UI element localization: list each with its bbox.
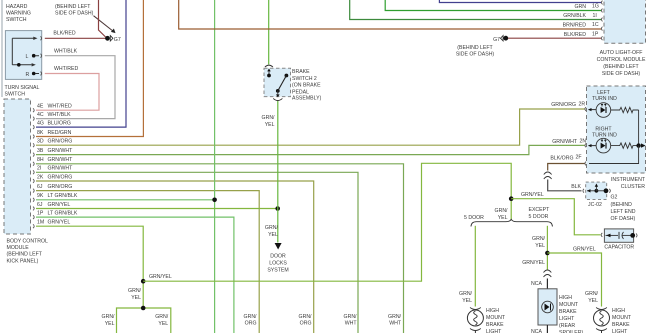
wire GRN/ORG BCM 3D to left turn ind 2R (36, 109, 585, 145)
svg-text:YEL: YEL (131, 295, 141, 301)
junction 9K (212, 198, 217, 203)
svg-text:YEL: YEL (158, 321, 168, 327)
svg-text:(BEHIND: (BEHIND (611, 202, 633, 208)
wire GRN/WHT BCM 2I to bottom edge (36, 172, 358, 333)
svg-text:BLU/ORG: BLU/ORG (48, 121, 71, 127)
svg-text:DOOR: DOOR (270, 254, 286, 260)
svg-text:SIDE OF DASH): SIDE OF DASH) (456, 52, 495, 58)
wire GRN/YEL brake switch to door locks (262, 101, 279, 243)
svg-text:1I: 1I (593, 13, 597, 19)
wire BLK/ORG to JC-02 (548, 164, 585, 171)
svg-text:WHT/RED: WHT/RED (48, 104, 72, 110)
pin 1P label (37, 211, 78, 217)
wire NCA to rear spoiler lamp (531, 279, 547, 289)
svg-text:4C: 4C (37, 112, 44, 118)
svg-text:PEDAL: PEDAL (292, 89, 309, 95)
svg-text:YEL: YEL (268, 232, 278, 238)
resistor left turn (611, 107, 639, 145)
svg-text:GRN/WHT: GRN/WHT (48, 157, 74, 163)
svg-text:BLK: BLK (571, 184, 581, 190)
wire BLK/RED from top edge to G7 (99, 0, 106, 37)
svg-text:GRN/BLK: GRN/BLK (563, 13, 586, 19)
junction 1M upper (141, 279, 146, 284)
svg-text:WHT/BLK: WHT/BLK (48, 112, 72, 118)
svg-text:SIDE OF DASH): SIDE OF DASH) (602, 71, 641, 77)
svg-text:(BEHIND LEFT: (BEHIND LEFT (7, 252, 43, 258)
svg-text:GRN/: GRN/ (532, 236, 546, 242)
arrow to door locks system (275, 243, 282, 250)
lamp right turn indicator (588, 138, 611, 153)
svg-text:BRAKE: BRAKE (612, 322, 630, 328)
label HIGH MOUNT BRAKE LIGHT right (612, 308, 632, 333)
lamp left turn indicator (588, 103, 611, 118)
label DOOR LOCKS SYSTEM (267, 254, 288, 274)
wire LT GRN/BLK vertical top to bottom (214, 0, 216, 333)
svg-text:KICK PANEL): KICK PANEL) (7, 258, 39, 264)
svg-text:GRN/: GRN/ (388, 314, 402, 320)
svg-text:8K: 8K (37, 130, 44, 136)
label BODY CONTROL MODULE (BEHIND LEFT KICK PANEL) (7, 239, 49, 265)
svg-text:GRN/ORG: GRN/ORG (48, 139, 73, 145)
wire WHT/BLK from L contact to BCM 4C (36, 49, 115, 119)
wire GRN/YEL BCM 6J to brake switch line (36, 208, 278, 210)
brace alternatives (471, 219, 552, 226)
svg-text:GRN/YEL: GRN/YEL (522, 260, 545, 266)
module pin labels (563, 4, 599, 38)
pin 4C label (37, 112, 71, 118)
svg-text:1P: 1P (37, 211, 44, 217)
wire BLK/RED from hazard switch to G7 (45, 31, 106, 39)
svg-text:SIDE OF DASH): SIDE OF DASH) (55, 11, 94, 17)
svg-text:5 DOOR: 5 DOOR (529, 214, 549, 220)
svg-text:5 DOOR: 5 DOOR (464, 215, 484, 221)
auto light-off control module box (604, 0, 646, 43)
wire LT GRN/BLK BCM 1P to bottom edge (36, 217, 234, 333)
svg-text:MOUNT: MOUNT (486, 315, 506, 321)
ground G7 right (493, 36, 508, 44)
svg-text:ORG: ORG (245, 321, 257, 327)
svg-text:HIGH: HIGH (486, 308, 499, 314)
svg-text:SWITCH 2: SWITCH 2 (292, 76, 317, 82)
svg-text:WHT/RED: WHT/RED (54, 66, 78, 72)
svg-text:(BEHIND LEFT: (BEHIND LEFT (55, 4, 91, 10)
rear spoiler high mount brake light box (538, 289, 557, 325)
svg-text:BODY CONTROL: BODY CONTROL (7, 239, 49, 245)
label INSTRUMENT CLUSTER (611, 177, 646, 190)
svg-text:WHT/BLK: WHT/BLK (54, 49, 78, 55)
svg-text:RED/GRN: RED/GRN (48, 130, 72, 136)
junction 6J (275, 206, 280, 211)
pin 6J label (37, 184, 72, 190)
wire BLK/ORG inside cluster (589, 146, 639, 164)
pin 9K label (37, 193, 78, 199)
svg-text:YEL: YEL (462, 298, 472, 304)
svg-text:LT GRN/BLK: LT GRN/BLK (48, 211, 78, 217)
svg-text:BLK/RED: BLK/RED (564, 32, 586, 38)
lamp right high mount brake light (594, 308, 610, 333)
cluster pin connectors (585, 107, 586, 165)
module connectors (601, 1, 602, 41)
pin 2I label (37, 166, 73, 172)
pin 3B label (37, 148, 73, 154)
svg-text:4E: 4E (37, 104, 44, 110)
wire BLU/ORG stub to module top pin (439, 0, 601, 3)
svg-text:INSTRUMENT: INSTRUMENT (611, 177, 646, 183)
svg-text:(BEHIND LEFT: (BEHIND LEFT (457, 45, 493, 51)
svg-text:3D: 3D (37, 139, 44, 145)
svg-text:BLK/RED: BLK/RED (53, 31, 75, 37)
wire GRN/YEL BCM 1M down-left network (36, 226, 171, 333)
instrument cluster turn indicator box (587, 86, 646, 173)
wire GRN/BLK to module 1I (350, 0, 601, 20)
svg-text:YEL: YEL (588, 298, 598, 304)
svg-text:G2: G2 (611, 195, 618, 201)
ground G7 left (105, 36, 121, 43)
svg-text:LIGHT: LIGHT (559, 316, 575, 322)
wire NCA below spoiler lamp (531, 325, 547, 333)
svg-text:6J: 6J (37, 202, 43, 208)
svg-text:1G: 1G (592, 4, 599, 10)
svg-text:GRN/YEL: GRN/YEL (521, 192, 544, 198)
svg-text:LIGHT: LIGHT (486, 329, 502, 333)
svg-text:CONTROL MODULE: CONTROL MODULE (597, 57, 646, 63)
svg-text:YEL: YEL (535, 243, 545, 249)
svg-text:2F: 2F (576, 155, 582, 161)
svg-text:GRN/: GRN/ (495, 208, 509, 214)
svg-text:3B: 3B (37, 148, 44, 154)
page edge line (1, 0, 3, 97)
turn signal / hazard switch box (5, 31, 41, 80)
svg-text:GRN/WHT: GRN/WHT (552, 139, 578, 145)
svg-text:9K: 9K (37, 193, 44, 199)
svg-text:R: R (26, 72, 30, 78)
label BRAKE SWITCH 2 (ON BRAKE PEDAL ASSEMBLY) (292, 69, 322, 102)
svg-text:GRN/ORG: GRN/ORG (551, 102, 576, 108)
label RIGHT TURN IND (592, 126, 617, 138)
junction except-5-door (545, 251, 550, 256)
svg-text:NCA: NCA (531, 329, 542, 333)
body control module box (4, 99, 31, 234)
svg-text:GRN/: GRN/ (299, 314, 313, 320)
inline connector on BLK/ORG (544, 172, 552, 179)
svg-text:(REAR: (REAR (559, 323, 575, 329)
brake switch 2 box (264, 65, 291, 100)
svg-text:HIGH: HIGH (559, 295, 572, 301)
svg-text:1C: 1C (592, 22, 599, 28)
svg-text:YEL: YEL (105, 321, 115, 327)
svg-text:2R: 2R (579, 102, 586, 108)
svg-text:(BEHIND LEFT: (BEHIND LEFT (603, 64, 639, 70)
svg-text:G7: G7 (114, 37, 121, 43)
svg-text:GRN/ORG: GRN/ORG (48, 184, 73, 190)
label GRN/WHT 2N (552, 139, 586, 146)
svg-text:JC-02: JC-02 (588, 202, 602, 208)
svg-text:GRN/YEL: GRN/YEL (48, 202, 71, 208)
svg-text:CAPACITOR: CAPACITOR (604, 245, 634, 251)
svg-text:WHT: WHT (345, 321, 358, 327)
pin 2K label (37, 174, 72, 180)
svg-text:GRN/YEL: GRN/YEL (149, 274, 172, 280)
svg-text:2I: 2I (37, 166, 41, 172)
svg-text:BLK/ORG: BLK/ORG (550, 156, 573, 162)
label HIGH MOUNT BRAKE LIGHT (REAR SPOILER) (559, 295, 583, 333)
svg-text:GRN: GRN (574, 4, 586, 10)
junction 1M lower (141, 306, 146, 311)
label HIGH MOUNT BRAKE LIGHT left (486, 308, 506, 333)
wire GRN/YEL except-5-door branch (522, 226, 547, 270)
svg-text:OF DASH): OF DASH) (611, 216, 636, 222)
label GRN/ORG 2R (551, 102, 585, 109)
pin 4G label (37, 121, 71, 127)
pin 8K label (37, 130, 72, 136)
svg-text:BRN/RED: BRN/RED (563, 22, 587, 28)
svg-text:LT GRN/BLK: LT GRN/BLK (48, 193, 78, 199)
svg-text:GRN/: GRN/ (265, 225, 279, 231)
svg-text:GRN/: GRN/ (459, 291, 473, 297)
label AUTO LIGHT-OFF CONTROL MODULE (597, 50, 646, 77)
svg-text:2K: 2K (37, 174, 44, 180)
wire BLK to JC-02 (548, 180, 582, 191)
svg-text:CLUSTER: CLUSTER (621, 184, 645, 190)
svg-text:(ON BRAKE: (ON BRAKE (292, 83, 321, 89)
wire RED/GRN BCM 8K to top edge (36, 0, 143, 137)
svg-text:4G: 4G (37, 121, 44, 127)
svg-text:SWITCH: SWITCH (6, 17, 27, 23)
svg-text:HAZARD: HAZARD (6, 4, 28, 10)
svg-text:GRN/WHT: GRN/WHT (48, 148, 74, 154)
svg-text:SWITCH: SWITCH (5, 92, 26, 98)
wire GRN/YEL main run to right side (143, 163, 511, 281)
svg-text:LEFT: LEFT (597, 90, 611, 96)
label BLK/ORG 2F (550, 155, 581, 162)
svg-text:GRN/: GRN/ (155, 314, 169, 320)
svg-text:NCA: NCA (531, 281, 542, 287)
svg-text:ASSEMBLY): ASSEMBLY) (292, 96, 322, 102)
inline connector on NCA wire (544, 270, 552, 277)
svg-text:G7: G7 (493, 37, 500, 43)
label LEFT TURN IND (592, 90, 617, 102)
svg-text:ORG: ORG (300, 321, 312, 327)
svg-text:YEL: YEL (498, 215, 508, 221)
svg-text:GRN/: GRN/ (102, 314, 116, 320)
svg-text:GRN/WHT: GRN/WHT (48, 166, 74, 172)
BCM connector arcs (33, 108, 34, 228)
wire GRN/ORG BCM 6J to bottom edge (36, 191, 259, 333)
svg-text:LIGHT: LIGHT (612, 329, 628, 333)
wire BLK/RED G7 to module 1P (508, 37, 601, 39)
wire WHT/RED from R contact to BCM 4E (36, 66, 99, 110)
pin 3D label (37, 139, 72, 145)
label G2 (BEHIND LEFT END OF DASH) (611, 195, 636, 223)
svg-text:HIGH: HIGH (612, 308, 625, 314)
arrow out of cluster (641, 143, 646, 147)
junction in cluster (636, 143, 640, 147)
svg-text:YEL: YEL (265, 122, 275, 128)
svg-text:TURN IND: TURN IND (592, 132, 617, 138)
svg-text:1M: 1M (37, 220, 44, 226)
wire GRN/ORG BCM 2K to bottom edge (36, 181, 314, 333)
svg-text:GRN/: GRN/ (585, 291, 599, 297)
svg-text:GRN/: GRN/ (244, 314, 258, 320)
wire GRN/YEL 5 door to left high mount lamp (459, 226, 475, 307)
wire GRN/YEL to capacitor (511, 192, 600, 235)
junction connector JC-02 (583, 182, 611, 199)
pin 4E label (37, 104, 72, 110)
svg-text:8H: 8H (37, 157, 44, 163)
svg-text:WARNING: WARNING (6, 11, 31, 17)
svg-text:LEFT END: LEFT END (611, 209, 636, 215)
svg-text:6J: 6J (37, 184, 43, 190)
label (BEHIND LEFT SIDE OF DASH) right G7 (456, 45, 495, 58)
pin 1M label (37, 220, 70, 226)
svg-text:TURN SIGNAL: TURN SIGNAL (5, 85, 40, 91)
wire GRN to module 1G (385, 0, 601, 11)
capacitor box (601, 229, 637, 242)
svg-text:MOUNT: MOUNT (559, 302, 579, 308)
svg-text:GRN/ORG: GRN/ORG (48, 174, 73, 180)
svg-text:GRN/YEL: GRN/YEL (48, 220, 71, 226)
svg-text:WHT: WHT (389, 321, 402, 327)
svg-text:TURN IND: TURN IND (592, 96, 617, 102)
junction GRN/YEL right (509, 196, 514, 201)
svg-text:MOUNT: MOUNT (612, 315, 632, 321)
svg-text:L: L (26, 54, 29, 60)
svg-text:BRAKE: BRAKE (292, 69, 310, 75)
lamp left high mount brake light (467, 308, 483, 333)
wire GRN/YEL to right high mount lamp (547, 247, 601, 307)
svg-text:GRN/: GRN/ (262, 115, 276, 121)
svg-text:GRN/: GRN/ (344, 314, 358, 320)
wire GRN/YEL brake switch feed from top (268, 0, 270, 64)
svg-text:SYSTEM: SYSTEM (267, 268, 288, 274)
pin 6J2 label (37, 202, 70, 208)
svg-text:BRAKE: BRAKE (486, 322, 504, 328)
leader line to G7 (94, 16, 116, 33)
wire GRN/WHT BCM 3B to right turn ind 2N (36, 145, 585, 154)
svg-text:GRN/: GRN/ (128, 288, 142, 294)
svg-text:LOCKS: LOCKS (269, 261, 287, 267)
svg-text:GRN/YEL: GRN/YEL (573, 247, 596, 253)
svg-text:AUTO LIGHT-OFF: AUTO LIGHT-OFF (600, 50, 643, 56)
resistor right turn (611, 143, 639, 148)
svg-text:EXCEPT: EXCEPT (529, 207, 551, 213)
svg-text:BRAKE: BRAKE (559, 309, 577, 315)
hazard switch internal contacts (12, 36, 41, 75)
svg-text:MODULE: MODULE (7, 245, 30, 251)
wire BRN/RED from top edge to module 1C (179, 0, 601, 29)
wire BLU/ORG BCM 4G to top edge (36, 0, 126, 127)
wire LT GRN/BLK BCM 9K (36, 199, 215, 201)
wire GRN/WHT BCM 8H to bottom edge (36, 164, 404, 333)
pin 8H label (37, 157, 73, 163)
svg-text:1P: 1P (592, 31, 599, 37)
